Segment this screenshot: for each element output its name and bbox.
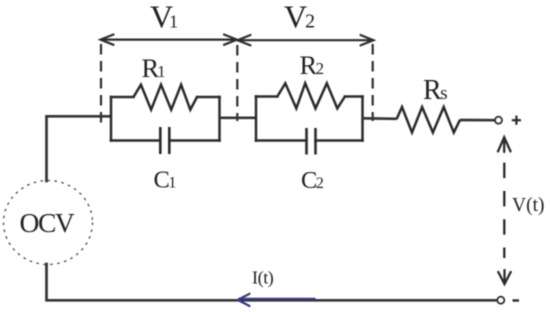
resistor R1 xyxy=(134,85,198,110)
dashed extension line left (x=101) xyxy=(100,44,102,124)
svg-text:V(t): V(t) xyxy=(512,195,545,216)
dashed line V(t) xyxy=(503,163,505,258)
voltage source OCV xyxy=(4,181,93,265)
wire: Rs to + terminal xyxy=(460,119,495,122)
label V2 xyxy=(284,0,315,35)
label V1 xyxy=(150,0,178,35)
wire: block2 to Rs xyxy=(363,117,397,120)
node: - terminal xyxy=(497,297,504,304)
wire: bottom return xyxy=(47,264,498,300)
capacitor C2 xyxy=(307,128,316,155)
capacitor C1 xyxy=(160,127,169,154)
svg-text:OCV: OCV xyxy=(20,207,75,238)
label C2 xyxy=(301,167,324,194)
resistor Rs xyxy=(397,107,461,133)
label + xyxy=(512,116,521,125)
label - xyxy=(513,299,520,301)
label V(t) xyxy=(512,195,545,216)
label C1 xyxy=(154,167,177,194)
label Rs xyxy=(423,75,448,106)
node: block2 frame (R2 C2 parallel) xyxy=(256,97,363,141)
arrow V(t) up arrowhead xyxy=(498,137,511,152)
svg-text:I(t): I(t) xyxy=(252,268,274,289)
label R2 xyxy=(300,50,324,80)
dashed extension line middle (x=237) xyxy=(236,45,238,121)
dashed extension line right (x=373) xyxy=(372,44,374,121)
wire: block1 to block2 xyxy=(220,116,257,119)
arrow V(t) down arrowhead xyxy=(498,270,510,284)
dimension arrow V1 xyxy=(101,35,238,45)
dimension arrow V2 xyxy=(238,35,374,45)
label R1 xyxy=(142,53,166,83)
wire: OCV top to block1 xyxy=(47,116,111,181)
node: block1 frame (R1 C1 parallel) xyxy=(111,97,220,141)
node: + terminal xyxy=(495,117,502,124)
label I(t) xyxy=(252,268,274,289)
resistor R2 xyxy=(277,83,345,108)
current arrow I(t) (blue) xyxy=(238,294,315,306)
